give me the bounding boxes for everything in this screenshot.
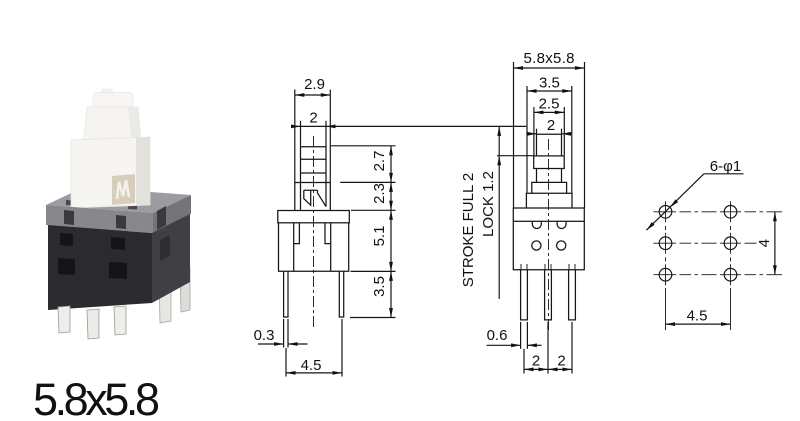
front left pin	[284, 271, 288, 317]
svg-text:2: 2	[547, 117, 555, 134]
dim 2 2 side bottom	[524, 368, 572, 370]
hole C2	[724, 268, 737, 281]
dim 0.6 side	[487, 344, 521, 346]
dim 0.3 front	[258, 343, 284, 345]
side flange	[513, 208, 584, 221]
svg-text:5.8x5.8: 5.8x5.8	[524, 50, 575, 67]
side neck	[537, 169, 562, 183]
front plunger segment lines	[301, 158, 327, 160]
svg-text:0.6: 0.6	[487, 327, 508, 344]
side step (2.9 wide)	[532, 182, 567, 193]
photo plunger neck	[84, 107, 141, 140]
svg-text:2: 2	[557, 353, 565, 370]
row centerline 3	[654, 274, 783, 276]
side pin 3	[569, 270, 576, 320]
photo body right face	[152, 214, 190, 303]
stroke / lock dimension	[497, 155, 534, 157]
svg-text:4.5: 4.5	[301, 357, 322, 374]
dim 4.5 layout	[666, 323, 731, 325]
photo plunger cap	[93, 93, 133, 108]
side body	[513, 221, 584, 269]
photo flange right face	[153, 195, 191, 233]
svg-text:2: 2	[309, 110, 317, 127]
photo pin front 1	[58, 306, 70, 333]
photo plunger latch window	[112, 174, 135, 205]
front body inner vertical lines	[293, 223, 295, 271]
side collar (2.5 wide)	[534, 156, 565, 169]
side pin roots	[521, 264, 575, 270]
front shoulder (2.9 wide)	[295, 183, 331, 211]
photo body hole 2	[111, 237, 125, 250]
side pin 1	[521, 270, 528, 320]
svg-text:4.5: 4.5	[687, 308, 708, 325]
vertical center ticks column 1	[665, 201, 667, 330]
arrowheads	[274, 66, 777, 375]
photo flange top-face latch holes	[66, 200, 74, 206]
svg-text:6-φ1: 6-φ1	[710, 158, 741, 175]
side body holes	[532, 241, 541, 250]
front centerline	[313, 136, 315, 328]
photo body hole 3	[58, 258, 75, 275]
photo body hole 4	[109, 262, 127, 279]
front body	[279, 223, 349, 271]
svg-text:5.8x5.8: 5.8x5.8	[33, 374, 160, 421]
svg-text:4: 4	[756, 239, 773, 247]
photo pin back-right 1	[180, 268, 190, 312]
dim 4.5 front	[286, 372, 342, 374]
dim 2.9 front	[295, 94, 331, 96]
photo body hole 1	[60, 233, 73, 246]
side centerline	[548, 139, 550, 330]
photo flange top face	[46, 187, 191, 213]
photo flange slot marks	[64, 210, 74, 225]
svg-text:2.7: 2.7	[371, 151, 388, 172]
front latch W cutout	[304, 190, 326, 206]
dim 2.5 side	[534, 111, 564, 113]
photo body front face	[48, 225, 152, 310]
photo plunger base block	[71, 137, 150, 208]
photo plunger cap nub	[101, 89, 113, 95]
dim 5.8x5.8 side	[514, 67, 585, 69]
svg-text:LOCK 1.2: LOCK 1.2	[480, 171, 497, 237]
svg-text:3.5: 3.5	[371, 276, 388, 297]
front flange	[278, 211, 350, 223]
photo flange front face	[46, 205, 153, 233]
row centerline 2	[654, 242, 757, 244]
photo pin front 3	[114, 306, 126, 335]
row centerline 1	[654, 211, 783, 213]
svg-text:STROKE FULL 2: STROKE FULL 2	[460, 173, 477, 287]
svg-text:5.1: 5.1	[371, 226, 388, 247]
svg-text:2: 2	[532, 353, 540, 370]
right chain dimension line of front view	[390, 146, 392, 318]
front plunger outline	[301, 147, 327, 211]
hole C1	[659, 268, 672, 281]
dim 3.5 side	[527, 90, 572, 92]
svg-text:2.5: 2.5	[539, 96, 560, 113]
dim 2 front (long reference line to side view)	[293, 125, 527, 127]
svg-text:0.3: 0.3	[254, 327, 275, 344]
side pin 2	[545, 270, 552, 320]
hole B1	[659, 237, 672, 250]
photo body right-face hole	[160, 235, 170, 261]
hole A1	[659, 206, 672, 219]
svg-text:3.5: 3.5	[539, 75, 560, 92]
photo pin back-right 2	[159, 276, 171, 323]
side body top half-holes	[532, 221, 541, 228]
svg-text:2.9: 2.9	[304, 76, 325, 93]
hole A2	[724, 206, 737, 219]
svg-text:2.3: 2.3	[371, 183, 388, 204]
dim 2 side top	[527, 133, 537, 135]
dim 4 layout	[774, 212, 776, 275]
side plunger top section (2 wide)	[537, 134, 562, 156]
front right pin	[339, 271, 343, 317]
photo pin front 2	[87, 309, 99, 339]
hole B2	[724, 237, 737, 250]
leader 6-phi1	[704, 173, 744, 175]
front body slots	[294, 223, 300, 244]
side base (3.5 wide)	[526, 193, 572, 208]
vertical center ticks column 2	[730, 201, 732, 330]
